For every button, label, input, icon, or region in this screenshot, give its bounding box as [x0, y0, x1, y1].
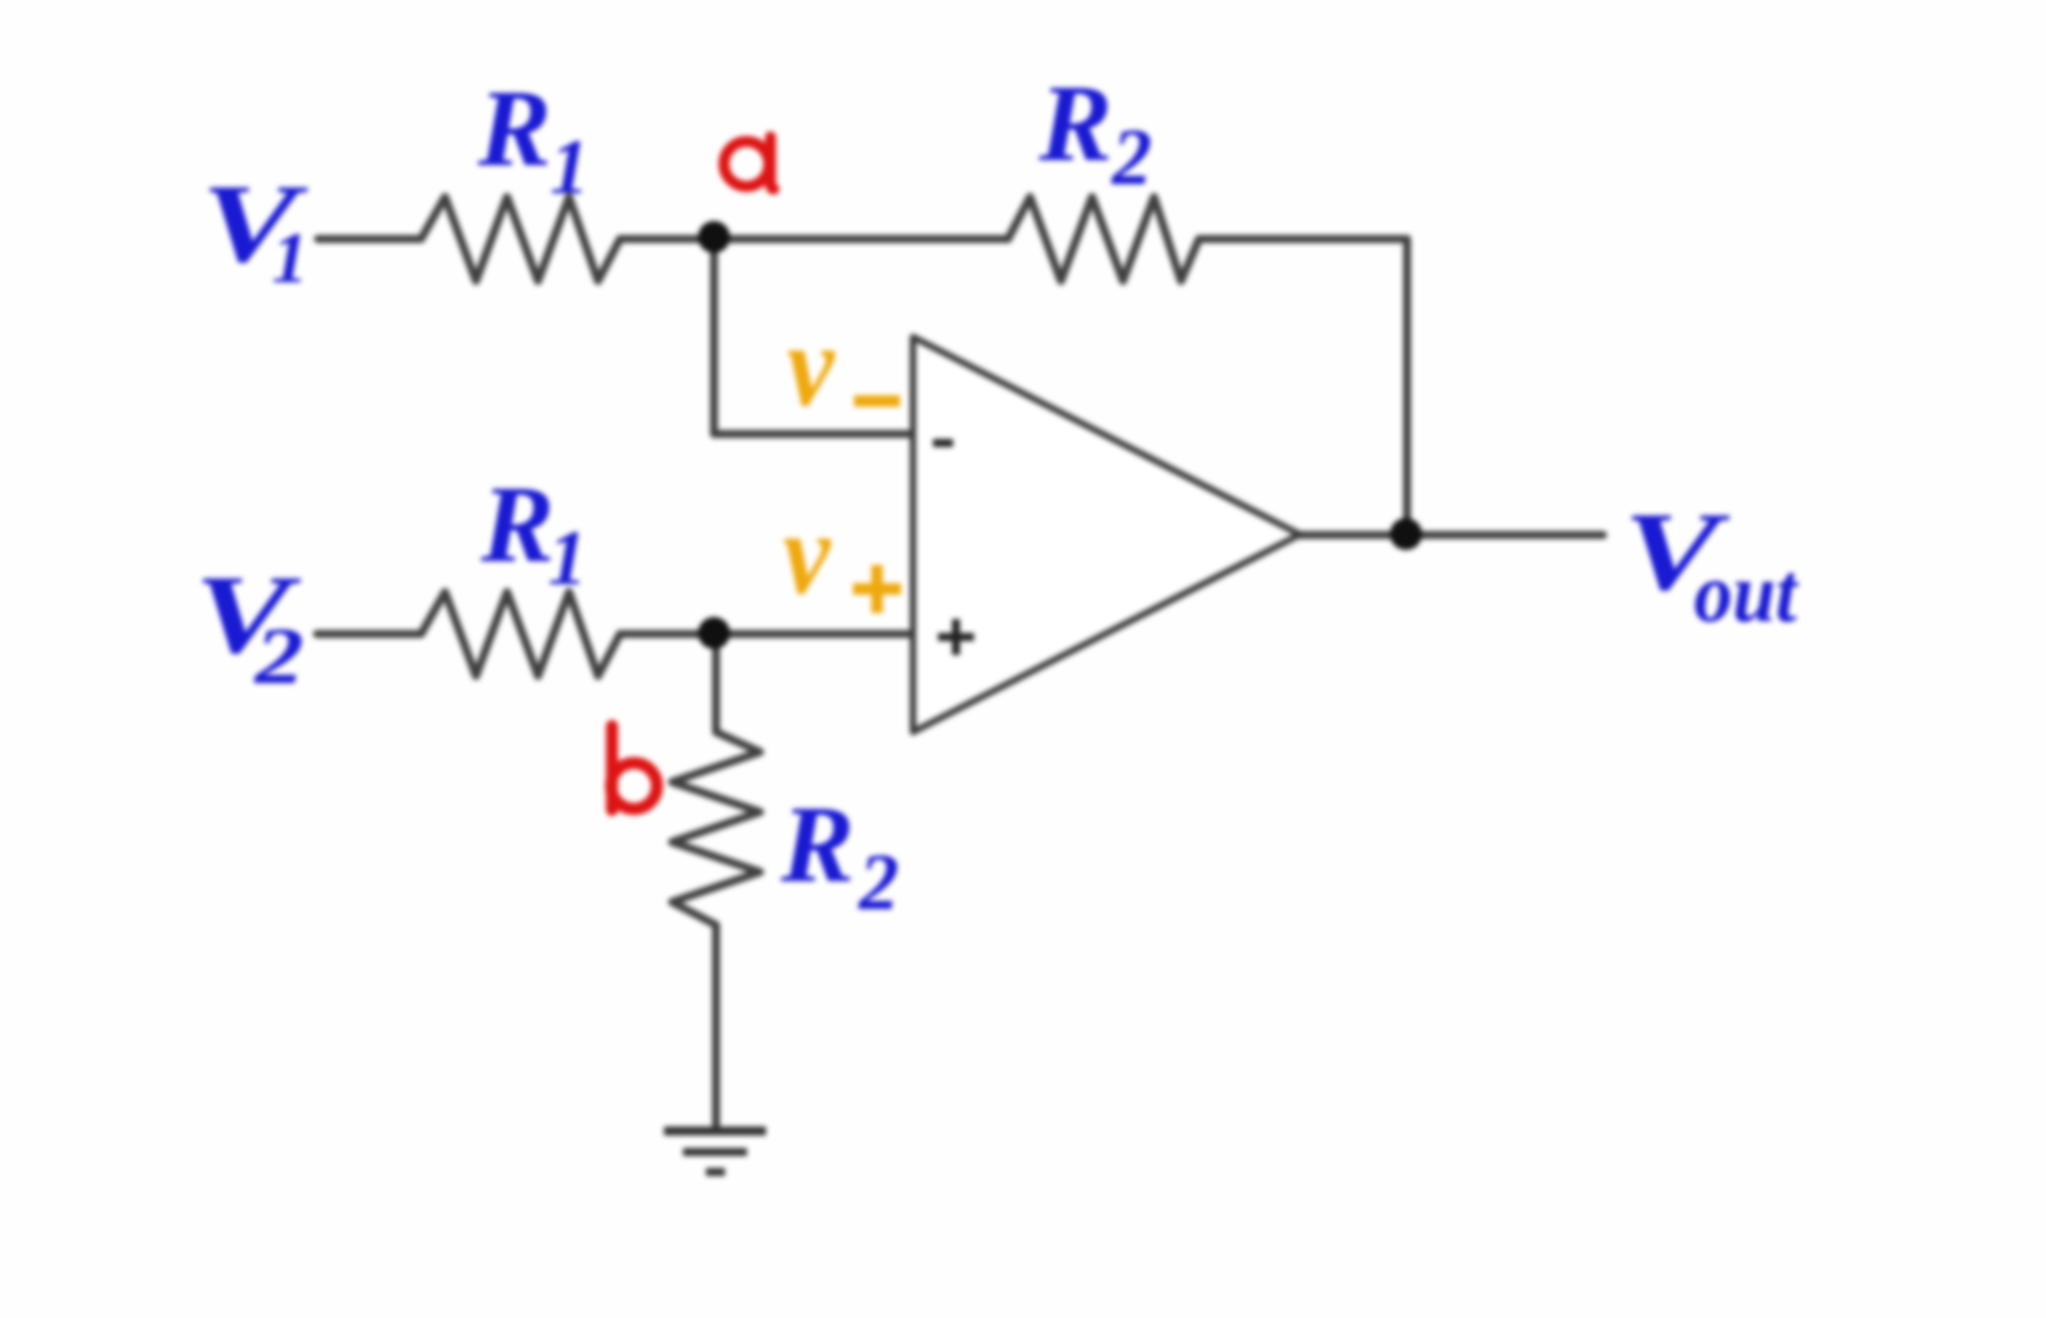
svg-text:v: v — [787, 301, 835, 431]
svg-text:1: 1 — [548, 514, 587, 601]
svg-text:2: 2 — [858, 839, 899, 927]
svg-text:out: out — [1694, 546, 1799, 640]
svg-text:2: 2 — [1111, 114, 1152, 202]
svg-text:1: 1 — [550, 123, 589, 210]
svg-text:1: 1 — [272, 218, 308, 298]
svg-text:R: R — [1038, 62, 1112, 184]
svg-text:2: 2 — [253, 612, 304, 701]
svg-text:v: v — [783, 489, 831, 619]
svg-text:R: R — [780, 783, 854, 905]
svg-text:R: R — [480, 463, 554, 585]
svg-text:R: R — [477, 67, 551, 189]
